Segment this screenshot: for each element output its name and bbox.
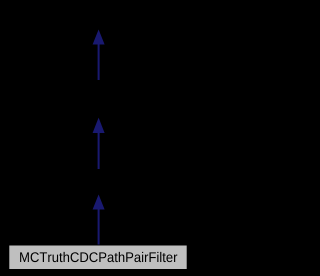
node A (top base class, invisible: black border on black) <box>40 5 157 30</box>
inheritance arrow 1 (MCTruthCDCPathPairFilter to node C) <box>93 195 105 245</box>
inheritance arrow 2 (node C to node B) <box>93 118 105 170</box>
node B (second base class, invisible: black border on black) <box>40 81 157 118</box>
node MCTruthCDCPathPairFilter (current class, grey filled box) <box>9 246 186 270</box>
node C (third base class, invisible: black border on black) <box>40 170 157 195</box>
inheritance arrow 3 (node B to node A) <box>93 30 105 81</box>
